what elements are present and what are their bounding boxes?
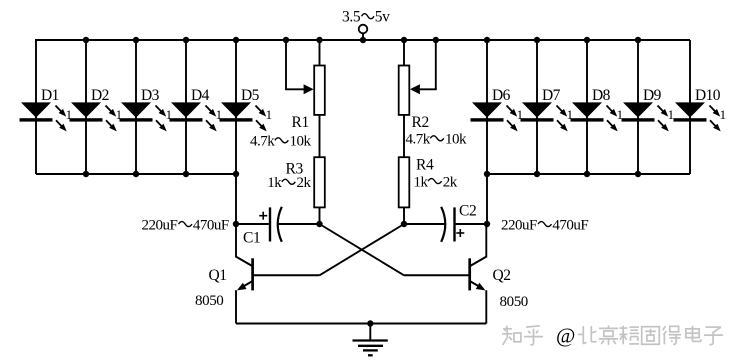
resistor R2 body (399, 66, 410, 115)
LED D7 (521, 87, 573, 132)
label R3 (286, 161, 304, 178)
resistor R1 body (314, 66, 325, 115)
svg-text:8050: 8050 (195, 293, 223, 309)
value 4.7k~10k (R2) (406, 132, 468, 148)
wire right LED return rail (487, 173, 690, 175)
svg-text:4.7k: 4.7k (250, 134, 275, 150)
label 8050 (Q1) (195, 293, 223, 309)
transistor Q1 (236, 224, 320, 324)
C2 plus sign (456, 229, 464, 237)
svg-text:10k: 10k (290, 134, 312, 150)
LED D2 (70, 87, 122, 132)
capacitor C2 plus plate (453, 207, 455, 241)
wire R2 top (403, 40, 405, 66)
LED D6 (471, 87, 523, 132)
svg-text:D6: D6 (492, 87, 511, 104)
junction return rail (635, 171, 641, 177)
label R1 (292, 114, 309, 131)
svg-text:220uF: 220uF (501, 217, 537, 233)
wire D10 column (689, 40, 691, 174)
junction top rail (233, 37, 239, 43)
capacitor C1 curved plate (278, 207, 282, 242)
node C1 left junction (233, 221, 239, 227)
junction return rail (584, 171, 590, 177)
resistor R4 body (399, 157, 410, 207)
svg-text:2k: 2k (297, 175, 312, 191)
svg-text:D10: D10 (695, 87, 721, 104)
wire D4 column (185, 40, 187, 174)
label Q1 (209, 267, 227, 284)
svg-text:220uF: 220uF (142, 217, 178, 233)
label 8050 (Q2) (500, 294, 528, 310)
wire emitter/ground rail (236, 323, 486, 325)
svg-text:D8: D8 (592, 87, 611, 104)
wire D8 column (586, 40, 588, 174)
LED D4 (170, 87, 222, 132)
LED D5 (220, 87, 272, 132)
capacitor C1 plus plate (269, 207, 271, 241)
resistor R3 body (314, 157, 325, 207)
LED D9 (622, 87, 674, 132)
wire R1 top (319, 40, 321, 66)
ground symbol (353, 324, 388, 356)
wire C2 node to Q1 base (diagonal) (320, 224, 405, 275)
svg-text:D1: D1 (41, 87, 59, 104)
R1 wiper wire (285, 40, 304, 89)
value 4.7k~10k (R1) (250, 134, 312, 150)
svg-text:C1: C1 (243, 230, 260, 247)
svg-text:1: 1 (668, 107, 674, 122)
wire D3 column (135, 40, 137, 174)
label C1 (243, 230, 260, 247)
svg-text:2k: 2k (443, 174, 458, 190)
junction return rail (183, 171, 189, 177)
capacitor C2 curved plate (441, 207, 445, 242)
wire D7 column (536, 40, 538, 174)
wire R2-R4 (403, 115, 405, 157)
junction R2 top rail (401, 37, 407, 43)
junction return rail (133, 171, 139, 177)
junction top rail (83, 37, 89, 43)
svg-text:@: @ (556, 324, 575, 348)
LED D1 (20, 87, 72, 132)
wire D5 column (235, 40, 237, 174)
wire right corner to C2 node (486, 174, 488, 224)
transistor Q2 (404, 224, 486, 324)
junction D6 return corner (484, 171, 490, 177)
wire D1 column (35, 40, 37, 174)
svg-text:R1: R1 (292, 114, 309, 131)
value 220uF~470uF (C1) (142, 217, 229, 233)
svg-text:R2: R2 (412, 114, 429, 131)
junction return rail (83, 171, 89, 177)
svg-text:1k: 1k (267, 175, 282, 191)
node C2-R4 junction (401, 221, 407, 227)
LED D8 (571, 87, 623, 132)
svg-text:Q1: Q1 (209, 267, 227, 284)
wire D6 column (486, 40, 488, 174)
junction R1 top rail (316, 37, 322, 43)
svg-text:470uF: 470uF (552, 217, 588, 233)
label C2 (459, 203, 476, 220)
junction top rail (534, 37, 540, 43)
svg-text:1k: 1k (414, 174, 429, 190)
svg-text:1: 1 (720, 107, 726, 122)
power label 3.5~5v (342, 8, 390, 25)
svg-text:D3: D3 (141, 87, 160, 104)
wire D9 column (637, 40, 639, 174)
junction return rail (534, 171, 540, 177)
junction top rail (584, 37, 590, 43)
wire D5 corner to C1 node (235, 174, 237, 224)
power input terminal (359, 25, 368, 40)
watermark zhihu @beijing wengude electronics (502, 324, 723, 348)
node ground junction (367, 320, 373, 326)
node power junction on top rail (360, 37, 366, 43)
value 220uF~470uF (C2) (501, 217, 588, 233)
C1 plus sign (259, 212, 267, 220)
svg-text:1: 1 (266, 107, 272, 122)
svg-text:R4: R4 (416, 157, 434, 174)
junction top rail (183, 37, 189, 43)
R2 wiper wire (419, 40, 437, 89)
svg-text:D7: D7 (542, 87, 561, 104)
LED D3 (120, 87, 172, 132)
R2 wiper arrowhead (410, 84, 420, 94)
svg-text:10k: 10k (445, 132, 467, 148)
svg-text:C2: C2 (459, 203, 476, 220)
R1 wiper arrowhead (304, 84, 314, 94)
junction wiper1 top rail (283, 37, 289, 43)
svg-text:3.5: 3.5 (342, 8, 361, 25)
junction D5 return corner (233, 171, 239, 177)
wire top supply rail (35, 39, 690, 41)
svg-text:8050: 8050 (500, 294, 528, 310)
label R2 (412, 114, 429, 131)
node C1-R3 junction (316, 221, 322, 227)
LED D10 (674, 87, 726, 132)
wire left LED return rail (36, 173, 236, 175)
junction top rail (635, 37, 641, 43)
wire R3 bottom (319, 207, 321, 224)
capacitor C1 wires (236, 223, 320, 225)
svg-text:D5: D5 (241, 87, 260, 104)
svg-text:5v: 5v (375, 8, 390, 25)
svg-text:D9: D9 (643, 87, 662, 104)
wire R1-R3 (319, 115, 321, 157)
capacitor C2 wires (404, 223, 487, 225)
wire R4 bottom (403, 207, 405, 224)
svg-text:D4: D4 (191, 87, 210, 104)
wire D2 column (85, 40, 87, 174)
junction wiper2 top rail (433, 37, 439, 43)
svg-text:4.7k: 4.7k (406, 132, 431, 148)
wire C1 node to Q2 base (diagonal) (320, 224, 405, 275)
svg-text:Q2: Q2 (493, 267, 511, 284)
junction top rail (484, 37, 490, 43)
svg-text:470uF: 470uF (193, 217, 229, 233)
label Q2 (493, 267, 511, 284)
svg-text:D2: D2 (91, 87, 109, 104)
value 1k~2k (R4) (414, 174, 458, 190)
junction top rail (133, 37, 139, 43)
label R4 (416, 157, 434, 174)
value 1k~2k (R3) (267, 175, 311, 191)
node C2 right junction (484, 221, 490, 227)
